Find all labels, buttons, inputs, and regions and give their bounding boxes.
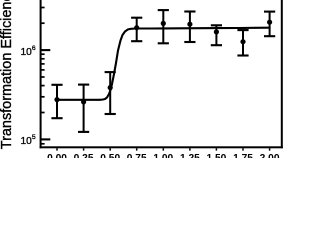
error bar point 7 (1.50)	[211, 25, 222, 45]
sigmoid fit curve	[57, 28, 270, 100]
error bar point 5 (1.00)	[158, 10, 169, 43]
error bar point 4 (0.75)	[131, 18, 142, 42]
error bar point 3 (0.50)	[105, 72, 116, 114]
error bar point 1 (0.00)	[51, 85, 62, 118]
y major tick 1e5	[41, 138, 51, 140]
y minor ticks	[41, 7, 45, 145]
svg-text:1.50: 1.50	[206, 153, 226, 158]
error bar point 6 (1.25)	[184, 12, 195, 43]
left spine	[40, 0, 42, 148]
x ticks	[56, 148, 270, 150]
svg-text:0.75: 0.75	[127, 153, 147, 158]
svg-text:0.25: 0.25	[74, 153, 94, 158]
error bar point 8 (1.75)	[237, 30, 248, 55]
svg-text:2.00: 2.00	[260, 153, 280, 158]
error bar point 2 (0.25)	[78, 85, 89, 132]
svg-text:0.50: 0.50	[100, 153, 120, 158]
svg-text:1.00: 1.00	[153, 153, 173, 158]
y major tick 1e6	[41, 49, 51, 51]
error bar point 9 (2.00)	[264, 12, 275, 37]
right spine	[281, 0, 283, 148]
svg-text:1.25: 1.25	[180, 153, 200, 158]
bottom spine	[40, 146, 283, 148]
svg-text:1.75: 1.75	[233, 153, 253, 158]
svg-text:Transformation Efficiency: Transformation Efficiency	[0, 0, 15, 149]
x tick labels	[47, 153, 280, 164]
svg-text:0.00: 0.00	[47, 153, 67, 158]
